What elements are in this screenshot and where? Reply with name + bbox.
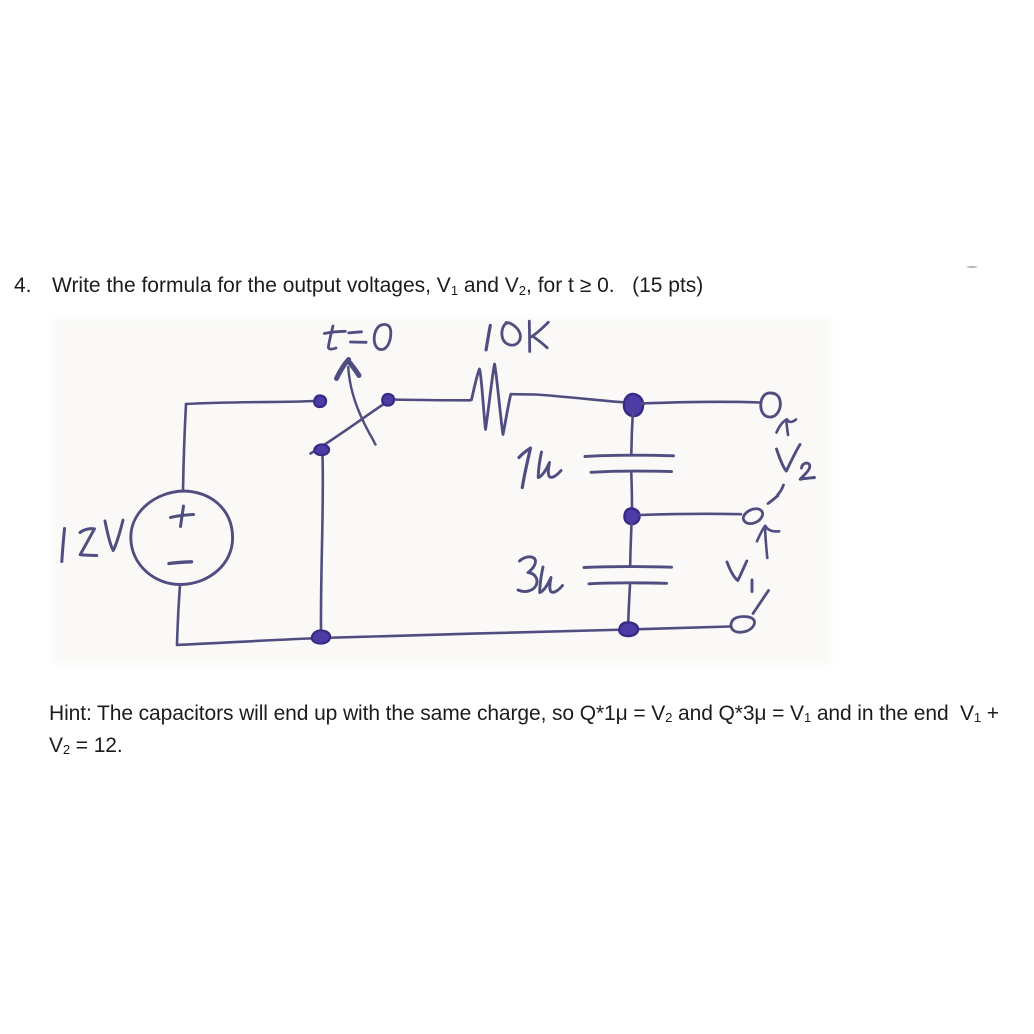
hint text bbox=[49, 699, 999, 763]
capacitor C2 3u plates bbox=[584, 565, 672, 569]
V1 arrow bbox=[765, 527, 767, 558]
stray pen smudge top right bbox=[966, 266, 978, 268]
wire source bottom vertical bbox=[177, 585, 180, 646]
node A junction dot bbox=[624, 394, 643, 416]
wire node A to terminal top bbox=[641, 402, 760, 404]
capacitor C2 stem top bbox=[630, 524, 631, 566]
wire bottom horizontal bbox=[177, 627, 730, 646]
voltage source V1 12V circle bbox=[131, 491, 233, 585]
terminal bottom open circle bbox=[731, 616, 755, 632]
wire node B to terminal middle bbox=[640, 514, 741, 515]
resistor R 10K zigzag bbox=[470, 364, 511, 435]
node C junction dot (bottom) bbox=[619, 622, 638, 636]
label 10K bbox=[486, 325, 490, 350]
label 12V bbox=[62, 529, 65, 562]
switch arrow curve t=0 bbox=[348, 367, 375, 445]
label V1 bbox=[727, 561, 747, 581]
terminal top open circle bbox=[761, 393, 781, 417]
V2 dash 2 bbox=[768, 496, 778, 504]
wire resistor to node A bbox=[511, 394, 626, 402]
capacitor C1 stem top bbox=[631, 413, 633, 455]
label 1u bbox=[519, 448, 531, 488]
switch dot left bbox=[314, 395, 326, 407]
switch dot right bbox=[382, 394, 394, 406]
switch bottom junction dot bbox=[312, 630, 330, 643]
capacitor C2 stem bottom bbox=[628, 585, 630, 624]
problem statement text bbox=[14, 275, 32, 296]
label V2 bbox=[777, 445, 801, 472]
minus sign bbox=[169, 562, 192, 564]
wire switch vertical to bottom bbox=[321, 456, 323, 631]
wire top-left horizontal bbox=[186, 401, 316, 404]
scanned paper area bbox=[53, 318, 831, 664]
switch blade bbox=[311, 402, 388, 454]
switch dot lower bbox=[314, 444, 329, 455]
plus sign bbox=[171, 506, 194, 527]
terminal middle open circle bbox=[743, 509, 762, 524]
V2 polarity tick bbox=[777, 419, 797, 435]
wire left vertical bbox=[183, 404, 186, 491]
switch arrowhead bbox=[337, 360, 360, 379]
V2 dash bbox=[778, 485, 784, 495]
V1 dash bbox=[753, 591, 769, 614]
capacitor C1 stem bottom bbox=[630, 473, 633, 510]
node B junction dot bbox=[624, 508, 639, 524]
label 3u bbox=[518, 557, 537, 592]
capacitor C1 1u plates bbox=[585, 455, 674, 456]
wire switch to resistor bbox=[391, 398, 470, 401]
label t=0 bbox=[328, 326, 336, 349]
